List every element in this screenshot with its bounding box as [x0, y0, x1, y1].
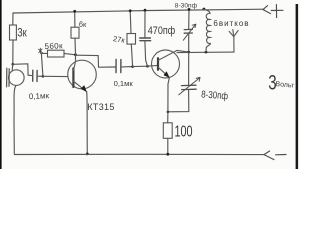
- node rail coil: [203, 8, 206, 11]
- wire trimmer1 to tank node: [188, 33, 190, 52]
- wire base to T2: [148, 64, 158, 67]
- antenna: [229, 30, 238, 52]
- node rail trimmer1: [188, 8, 191, 11]
- svg-text:100: 100: [175, 123, 193, 140]
- wire trimmer2 to emitter node: [168, 90, 189, 112]
- wire top supply rail: [13, 9, 264, 13]
- wire 3k to mic node: [12, 40, 14, 64]
- svg-text:0,1мк: 0,1мк: [114, 79, 134, 88]
- resistor 3к: [10, 25, 17, 40]
- node rail 400pf: [144, 9, 147, 12]
- svg-text:8-30пф: 8-30пф: [201, 89, 229, 102]
- wire base node to T1: [43, 75, 68, 77]
- capacitor C2 0,1мк: [116, 59, 121, 72]
- wire trimmer2 branch: [188, 52, 190, 85]
- wire microphone to bottom rail: [14, 85, 16, 153]
- wire 6k to rail: [74, 11, 76, 27]
- node emitter bottom: [86, 153, 89, 156]
- svg-text:0,1мк: 0,1мк: [29, 91, 50, 101]
- svg-text:6к: 6к: [79, 19, 88, 29]
- photo edge left black bar: [0, 0, 2, 169]
- wire 6k lead: [74, 38, 77, 55]
- wire 560k left lead down to base node: [41, 53, 47, 76]
- photo edge right dark bar: [296, 4, 299, 169]
- wire bottom ground rail: [14, 153, 264, 155]
- wire 560k right lead to collector node: [64, 53, 76, 54]
- connector minus terminal: [264, 151, 286, 160]
- capacitor 470пф: [140, 38, 151, 41]
- wire collector node down to T1: [75, 55, 77, 61]
- wire mic node to coupling cap: [13, 64, 32, 76]
- capacitor C1 0,1мк: [33, 70, 37, 81]
- node mic/cap junction: [12, 63, 15, 66]
- transistor Q2: [152, 50, 180, 78]
- node 400pf base wire: [146, 65, 149, 68]
- paper background: [0, 0, 300, 169]
- wire C2 to 27k node: [122, 66, 133, 68]
- wire junction down to microphone: [11, 64, 14, 70]
- resistor 6к: [71, 27, 79, 38]
- wire C1 to base node: [38, 75, 43, 77]
- resistor 27к: [127, 34, 136, 45]
- svg-text:470пф: 470пф: [148, 24, 175, 37]
- node tank left: [187, 51, 190, 54]
- node bottom rail 100: [166, 153, 169, 156]
- transistor Q1 КТ315: [68, 60, 97, 92]
- wire 27k branch: [129, 11, 132, 34]
- node rail 27k: [129, 9, 132, 12]
- node rail 6k: [73, 10, 76, 13]
- node T1 base: [42, 75, 45, 78]
- node T1 collector: [74, 53, 77, 56]
- wire base segment to 400pf node: [133, 65, 148, 67]
- wire collector to C2: [76, 55, 116, 67]
- resistor 560к: [48, 50, 65, 57]
- resistor 100: [163, 123, 172, 139]
- wire 400pf branch from rail: [144, 10, 146, 37]
- wire tank rail: [177, 51, 234, 54]
- trimmer capacitor CT1 8-30пф: [183, 24, 196, 40]
- wire emitter node to 100: [167, 112, 169, 123]
- wire T1 emitter to bottom rail: [86, 92, 89, 154]
- label * select mark: [39, 48, 43, 53]
- node emitter junction: [167, 111, 170, 114]
- node 27k base wire: [131, 65, 134, 68]
- inductor L1 6 витков: [203, 9, 210, 52]
- svg-text:560к: 560к: [44, 41, 63, 51]
- svg-text:8-30пф: 8-30пф: [175, 2, 198, 9]
- node tank coil: [205, 51, 208, 54]
- microphone M1: [7, 68, 24, 87]
- wire left drop from rail to 3k: [12, 13, 14, 25]
- wire T2 collector to tank node: [177, 50, 189, 52]
- svg-text:6витков: 6витков: [213, 19, 249, 28]
- wire T2 emitter down: [168, 78, 170, 112]
- wire 400pf bottom lead: [145, 41, 148, 66]
- connector plus terminal: [263, 5, 283, 18]
- svg-text:27к: 27к: [112, 34, 126, 45]
- svg-text:КТ315: КТ315: [87, 102, 114, 112]
- trimmer capacitor CT2 8-30пф: [179, 77, 200, 94]
- svg-text:3к: 3к: [17, 27, 27, 40]
- wire 27k bottom lead: [131, 44, 132, 67]
- wire 100 to bottom rail: [167, 138, 169, 154]
- wire trimmer1 branch from rail: [188, 9, 190, 29]
